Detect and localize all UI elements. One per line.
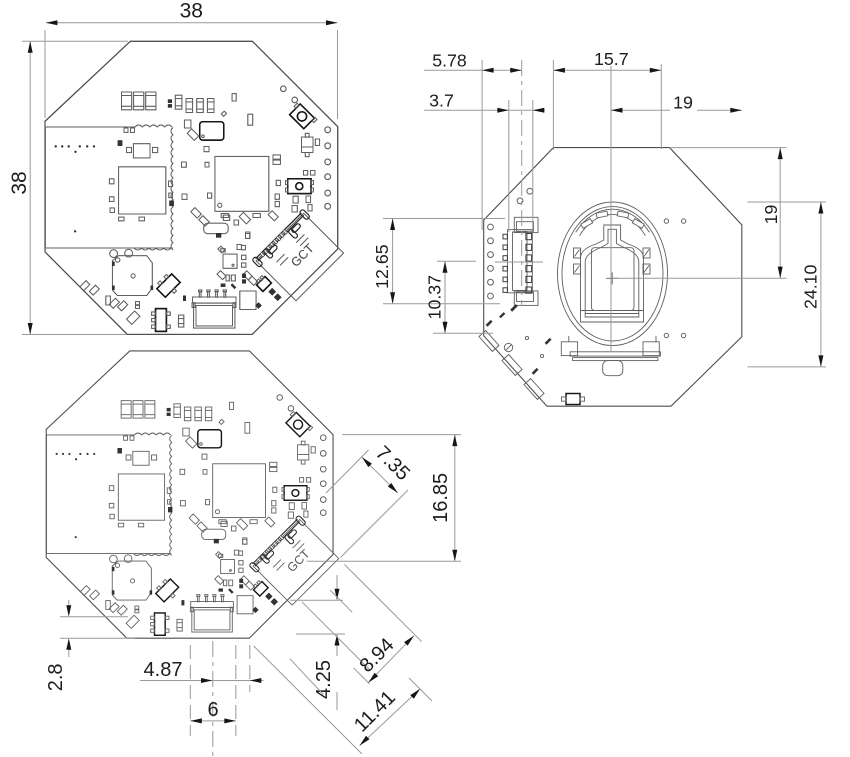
dimension 38 vertical (left): [29, 41, 31, 334]
PCB bottom view outline (octagon): [484, 148, 742, 407]
svg-text:4.25: 4.25: [313, 660, 335, 699]
capacitor bank C1-C3: [122, 92, 132, 110]
module pads: [118, 140, 123, 146]
dimension 2.8: [68, 600, 70, 612]
connector J2 (5-pin): [193, 297, 237, 303]
buzzer BZ1: [112, 256, 152, 296]
dimension 4.25: [336, 575, 338, 595]
pad square P1: [240, 291, 256, 310]
svg-text:38: 38: [8, 171, 31, 194]
PCB top view repeated (lower left): [46, 351, 340, 638]
svg-text:38: 38: [180, 0, 203, 23]
button SW1: [288, 179, 311, 194]
PCB board outline (octagon 38x38mm): [45, 41, 338, 334]
resistor R2: [248, 114, 253, 125]
dark pads (bottom view): [486, 320, 493, 327]
small pads pair: [168, 99, 172, 103]
dimension 4.87: [140, 680, 264, 682]
RF module M1 shield outline with wavy edge: [45, 125, 173, 250]
transistor Q1 (SOT-23): [302, 137, 314, 153]
dimension 38 horizontal (top): [46, 22, 338, 24]
dimension 12.65: [392, 219, 394, 304]
holder bottom tabs: [561, 342, 577, 356]
extension lines 4.87/6: [189, 645, 191, 736]
transistor Q2 (rotated SOT-23): [154, 272, 182, 300]
battery cavity: [591, 248, 634, 311]
pads right (bottom view): [664, 219, 668, 223]
dimension 8.94 (diagonal): [368, 636, 414, 683]
dimension 3.7: [424, 109, 545, 111]
dimension 15.7: [553, 69, 661, 71]
mounting holes right edge: [281, 86, 287, 92]
PCB top view (upper left): [45, 41, 345, 334]
svg-text:4.87: 4.87: [144, 659, 183, 681]
svg-text:16.85: 16.85: [430, 473, 452, 523]
battery holder BT1: [558, 202, 668, 346]
antenna dots: [55, 145, 57, 147]
resistor R1: [232, 94, 236, 101]
dimension 10.37: [444, 261, 446, 333]
passives left of MCU: [187, 129, 199, 141]
regulator U6 (SOT-23-5): [156, 309, 167, 332]
small part Q3: [255, 275, 272, 292]
svg-text:2.8: 2.8: [45, 663, 67, 691]
fiducial: [504, 343, 512, 351]
svg-text:6: 6: [207, 699, 218, 721]
svg-text:10.37: 10.37: [425, 275, 445, 320]
scattered passives below module: [191, 208, 201, 218]
MCU pads: [208, 193, 212, 198]
dimension 16.85: [454, 435, 456, 562]
dimension 11.41 (diagonal): [360, 689, 421, 746]
small chip U5: [223, 254, 237, 268]
battery clip (bottle shape): [581, 225, 644, 322]
module chip U3: [119, 167, 166, 214]
diode D1: [204, 223, 229, 234]
USB pads: [268, 288, 276, 296]
capacitors C4-C7: [175, 95, 182, 109]
mounting holes left column (bottom view): [488, 224, 494, 230]
extension lines top dims: [481, 60, 483, 230]
crystal/shield component U4 (rounded): [200, 122, 224, 140]
passives near GCT: [243, 271, 252, 280]
battery center mark: [606, 277, 618, 279]
dimension 24.10: [820, 202, 822, 367]
dimension 6: [190, 720, 236, 722]
connector J1 (7-pin, bottom view): [514, 217, 538, 232]
svg-text:19: 19: [673, 93, 693, 113]
small part: [184, 120, 191, 128]
capacitor C8: [178, 315, 183, 327]
battery clip arc band and slots: [576, 209, 650, 232]
dimension 19 vertical: [779, 148, 781, 279]
resistor bottom edge: [566, 394, 580, 405]
svg-text:3.7: 3.7: [429, 91, 454, 111]
svg-text:5.78: 5.78: [432, 51, 467, 71]
svg-text:19: 19: [761, 205, 781, 225]
dimension 7.35 (diagonal): [362, 457, 398, 493]
dimension 5.78: [424, 69, 522, 71]
clip teeth: [574, 248, 581, 258]
LED/button S1 (rotated, top right): [288, 101, 317, 130]
MCU U1: [215, 156, 269, 211]
edge contacts lower-left diagonal: [479, 331, 499, 352]
svg-text:24.10: 24.10: [801, 264, 821, 309]
USB connector J3 (GCT): [252, 209, 345, 302]
dimension 19 horizontal: [611, 109, 742, 111]
passives bottom-left: [80, 281, 90, 291]
module crystal Y1: [133, 144, 150, 158]
svg-text:12.65: 12.65: [372, 244, 392, 289]
passives below MCU: [234, 220, 239, 225]
